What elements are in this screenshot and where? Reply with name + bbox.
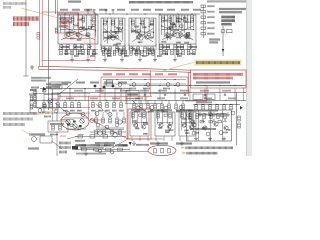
junction xyxy=(191,13,192,14)
diode D2 (arrow) xyxy=(129,142,132,145)
label: R73 value xyxy=(91,110,96,112)
wire: ground drop xyxy=(154,50,156,58)
wire: left cluster vert 3 xyxy=(57,92,59,112)
transistor Q43 xyxy=(179,33,183,37)
label: stage 3 part value xyxy=(138,34,143,36)
resistor R12 xyxy=(71,17,74,22)
transistor Q extra 92 xyxy=(90,118,94,122)
ground xyxy=(73,44,77,48)
wire: mid bus D xyxy=(30,99,246,101)
label: R51 value xyxy=(208,11,215,13)
transistor QM 134 xyxy=(132,83,136,87)
label: stage 1 part value xyxy=(77,39,82,41)
wire: red stub v3 xyxy=(145,96,147,104)
label: understage value xyxy=(92,53,98,55)
junction stage 1 xyxy=(82,18,83,19)
capacitor C busC 205 xyxy=(204,93,206,95)
junction xyxy=(144,85,145,86)
ground xyxy=(88,44,92,48)
junction out stage 6 b xyxy=(169,122,170,123)
mixer sub box xyxy=(52,93,60,99)
resistor R73 xyxy=(92,103,95,108)
label: net name lower xyxy=(228,97,236,99)
wire: ground drop xyxy=(71,50,73,58)
label: bottom row note 0 xyxy=(76,144,86,146)
wire: bottom link rail xyxy=(75,136,126,138)
label: mid band upper note xyxy=(90,82,99,84)
transistor QT 186 xyxy=(184,34,188,38)
wire: stage drop xyxy=(171,137,173,142)
wire: inter-bus drop xyxy=(69,89,71,101)
label: yellow highlighted note xyxy=(196,61,240,64)
ground xyxy=(131,46,135,50)
IC U1 box xyxy=(126,91,139,99)
resistor RT77.5 xyxy=(76,50,79,55)
transistor Q41 xyxy=(165,33,169,37)
label: top right note xyxy=(207,0,246,2)
resistor RT66.5 xyxy=(65,50,68,55)
junction stage 3 xyxy=(140,23,141,24)
capacitor C40 body xyxy=(180,25,183,27)
wire: rising diagonal link xyxy=(58,79,78,95)
label: component value xyxy=(75,46,82,48)
wire: red vertical riser 1 xyxy=(88,96,90,119)
junction xyxy=(144,13,145,14)
junction xyxy=(75,100,76,101)
ground xyxy=(84,151,88,155)
wire: drop into mixer xyxy=(56,112,58,121)
wire: stage 2 branch 1 xyxy=(106,18,108,43)
label: net name lower xyxy=(135,97,143,99)
amplifier stage 3 outline xyxy=(129,18,156,46)
leader line (tan callout) xyxy=(21,8,62,19)
label: stage 5 value xyxy=(132,120,137,122)
wire: bottom-left drop to edge xyxy=(56,132,58,156)
ground xyxy=(146,46,150,50)
wire: inter-bus drop xyxy=(144,89,146,101)
wire: red vertical annotation pair xyxy=(39,0,41,66)
resistor R115 xyxy=(168,104,171,109)
ground xyxy=(189,44,193,48)
label: lower part value xyxy=(176,111,182,113)
transistor Q rm 210 xyxy=(208,112,212,116)
label: frame inner values xyxy=(190,128,216,130)
wire: inter-bus drop xyxy=(189,89,191,101)
resistor RC3 xyxy=(210,114,213,119)
label: red module tag 1 xyxy=(103,73,112,75)
label: red annotation line 2 xyxy=(13,22,29,26)
label: understage value xyxy=(190,53,196,55)
junction stage 4 xyxy=(181,19,182,20)
ground xyxy=(161,44,165,48)
label: mid band upper note xyxy=(104,82,113,84)
transistor QC216 xyxy=(214,122,218,126)
resistor RC2 xyxy=(203,114,206,119)
resistor RT194 xyxy=(193,50,196,55)
label: mid band upper note xyxy=(62,82,71,84)
junction xyxy=(69,88,70,89)
resistor R51 xyxy=(201,11,206,13)
wire: out stage 6 rail xyxy=(157,122,173,124)
wire: ground drop xyxy=(87,50,89,58)
transistor Q blob 95 xyxy=(94,85,97,88)
wire: ground drop xyxy=(104,50,106,58)
wire: inter-bus drop xyxy=(84,89,86,101)
junction frame xyxy=(213,119,214,120)
label: mixer note xyxy=(50,123,64,125)
label: bottom values row xyxy=(76,153,106,155)
wire: comb rail 2 xyxy=(96,129,124,131)
wire: red stub v2 xyxy=(120,89,122,101)
wire: understage rail L xyxy=(58,49,98,51)
wire: red vertical top segment xyxy=(57,0,59,13)
resistor RC0 xyxy=(189,114,192,119)
label: stage 6 value xyxy=(165,131,170,133)
resistor R1 (red highlighted) xyxy=(37,33,40,40)
wire: frame strap xyxy=(212,121,216,123)
transistor Q13 xyxy=(86,33,90,37)
wire: right lower bus xyxy=(193,103,240,105)
label: gnd net xyxy=(107,55,112,57)
resistor R114 xyxy=(161,104,164,109)
ground xyxy=(153,58,157,62)
annotation: red box around output stage 5 xyxy=(128,109,151,139)
junction left 2 xyxy=(43,100,44,101)
resistor R100 xyxy=(95,118,98,123)
transistor Q extra 120 xyxy=(118,120,122,124)
transistor Q31 xyxy=(136,35,140,39)
label: stage 4 part value xyxy=(166,36,171,38)
resistor R130 xyxy=(43,103,46,108)
junction stage 4 xyxy=(184,17,185,18)
wire: inter-bus drop xyxy=(204,89,206,101)
resistor R90 xyxy=(52,125,55,130)
resistor R122 xyxy=(111,130,114,135)
wire: left cluster rail 2 xyxy=(36,107,58,109)
resistor RS152 xyxy=(151,47,154,52)
resistor RB6b xyxy=(169,113,172,118)
capacitor C bottom-rail body xyxy=(90,135,95,138)
label: R52 value xyxy=(208,16,215,18)
wire: out stage 7 rail xyxy=(181,122,194,124)
wire: drop to lower parts xyxy=(168,100,170,104)
label: component value xyxy=(177,46,184,48)
junction xyxy=(159,85,160,86)
wire: mid bus B left xyxy=(40,88,130,90)
label: R60 value xyxy=(30,94,36,96)
resistor R74 xyxy=(99,103,102,108)
ground xyxy=(132,141,136,145)
output stage 7 outline xyxy=(179,112,196,136)
label: stage 1 part value xyxy=(70,32,75,34)
transistor QT 141 xyxy=(139,36,143,40)
label: R75 value xyxy=(105,110,110,112)
wire: red vertical riser 5 xyxy=(243,88,245,101)
transistor Q22 xyxy=(114,35,118,39)
wire: diagonal a xyxy=(96,104,108,114)
label: above-bus ref xyxy=(167,9,175,11)
label: net name lower xyxy=(66,97,74,99)
capacitor C12 body xyxy=(88,26,91,28)
label: cluster note xyxy=(50,134,58,136)
label: gnd net xyxy=(157,55,162,57)
annotation: red box around first stage xyxy=(58,13,79,33)
ground xyxy=(70,58,74,62)
wire: mid cluster bus xyxy=(96,127,124,129)
label: red annotation line 1 xyxy=(13,16,39,20)
resistor RC1 xyxy=(196,114,199,119)
wire: red link into cluster xyxy=(60,119,74,121)
transistor Q bottom 68 xyxy=(66,120,70,124)
wire: ground drop xyxy=(121,50,123,58)
label: bus net name xyxy=(222,90,231,92)
label: mid right note 2 xyxy=(210,41,219,43)
resistor bottom 96 xyxy=(94,148,99,151)
resistor R52 xyxy=(201,16,206,18)
label: bus net name xyxy=(140,90,149,92)
wire: left cluster vert 1 xyxy=(43,89,45,112)
transistor QC226 xyxy=(224,126,228,130)
label: red box text 1 xyxy=(60,17,73,20)
junction xyxy=(105,100,106,101)
junction stage 1 xyxy=(73,24,74,25)
transistor QT 80 xyxy=(78,34,82,38)
resistor R45 xyxy=(191,17,194,22)
label: stage 1 part value xyxy=(65,20,70,22)
resistor RT136.5 xyxy=(135,50,138,55)
wire: mid bus A xyxy=(130,85,246,87)
wire: red separator lower (sloped) xyxy=(39,69,192,72)
label: stage 3 part value xyxy=(134,26,139,28)
wire: right column link xyxy=(202,5,204,38)
capacitor C10 body xyxy=(79,27,82,29)
label: component value xyxy=(163,46,170,48)
junction stage 2 xyxy=(107,21,108,22)
label: stage 1 part value xyxy=(82,28,87,30)
wire: inter-bus drop xyxy=(174,89,176,101)
label: bus net name xyxy=(158,90,167,92)
ground xyxy=(138,58,142,62)
resistor RT61 xyxy=(60,50,63,55)
resistor R116 xyxy=(175,104,178,109)
label: between-stage note 2 xyxy=(176,109,186,111)
label: left band note row xyxy=(46,83,68,85)
wire: stage 3 branch 5 xyxy=(153,18,155,38)
wire: module rail lower xyxy=(103,83,186,85)
label: bottom row notes combined xyxy=(75,144,90,146)
resistor R14 xyxy=(93,17,96,22)
label: right cluster values xyxy=(198,114,226,116)
junction xyxy=(204,85,205,86)
capacitor C under 150 xyxy=(149,50,152,52)
wire: red segment lower mid xyxy=(125,102,162,104)
resistor RS75 xyxy=(74,45,77,50)
wire: drop to lower parts xyxy=(154,100,156,104)
label: stage 5 value xyxy=(143,133,148,135)
label: schematic title line xyxy=(129,1,193,3)
wire: stage drop xyxy=(163,137,165,142)
label: stage 5 value xyxy=(135,127,140,129)
wire: left edge drop xyxy=(29,100,31,113)
wire: far-left vertical xyxy=(25,0,27,76)
label: understage value xyxy=(148,53,154,55)
wire: stage 4 branch 4 xyxy=(172,15,174,33)
junction stage 2 xyxy=(114,26,115,27)
label: bottom mid note 2 xyxy=(176,142,192,144)
junction stage 3 xyxy=(149,26,150,27)
label: gnd net xyxy=(142,55,147,57)
junction stage 4 xyxy=(178,17,179,18)
wire: stage 4 cross-coupling xyxy=(162,26,193,40)
leader line (tan) mid-left xyxy=(36,110,58,115)
wire: bottom bus xyxy=(75,149,130,151)
resistor R104 xyxy=(123,118,126,123)
resistor R111 xyxy=(140,104,143,109)
junction stage 4 xyxy=(190,22,191,23)
wire: stage 3 mid rail xyxy=(131,31,154,33)
label: red box right components xyxy=(196,81,230,83)
label: above-bus ref xyxy=(193,9,201,11)
label: gray note col 1 xyxy=(59,142,71,145)
wire: drop to lower parts xyxy=(161,100,163,104)
ground xyxy=(156,141,160,145)
resistor RS131 xyxy=(130,47,133,52)
wire: stage drop xyxy=(179,137,181,142)
transistor QB7b xyxy=(189,125,193,129)
wire: stage drop xyxy=(139,137,141,142)
wire: red signal path mid xyxy=(58,95,152,97)
capacitor CB5 body xyxy=(139,114,142,116)
label: stage 3 part value xyxy=(135,32,140,34)
capacitor C frame body xyxy=(209,121,212,123)
resistor R22 xyxy=(112,20,115,25)
label: module frame title xyxy=(188,110,218,112)
capacitor C under 94 xyxy=(93,50,96,52)
wire: stage 2 branch 0 xyxy=(103,18,105,40)
capacitor C31 body xyxy=(137,30,140,32)
resistor RT177.5 xyxy=(176,50,179,55)
transistor Q42 xyxy=(172,33,176,37)
label: net name lower xyxy=(157,97,165,99)
wire: red diagonal to ellipse xyxy=(67,135,84,140)
wire: stage 1 mid rail xyxy=(60,29,96,31)
wire: stage 3 branch 4 xyxy=(148,18,150,32)
capacitor C43 body xyxy=(187,32,190,34)
label: left value b xyxy=(42,112,49,114)
capacitor C20 body xyxy=(118,29,121,31)
label: stage 7 value xyxy=(185,132,190,134)
oscillator box xyxy=(40,136,52,143)
label: R54 value xyxy=(208,27,215,29)
junction stage 3 xyxy=(135,30,136,31)
resistor R72 xyxy=(78,103,81,108)
label: stage 3 part value xyxy=(149,24,154,26)
resistor RB5b xyxy=(143,113,146,118)
label: left value a xyxy=(30,89,36,91)
label: stage 3 part value xyxy=(149,37,154,39)
label: understage value xyxy=(176,53,182,55)
label: above-bus ref xyxy=(117,9,125,11)
wire: stage 4 mid rail xyxy=(161,29,194,31)
wire: red bottom diagonal xyxy=(110,139,128,149)
wire: stage 1 branch 2 xyxy=(68,15,70,35)
ground xyxy=(222,137,226,141)
label: component value xyxy=(62,46,69,48)
leader line (tan) lower-left xyxy=(22,130,32,136)
label: stage 4 part value xyxy=(171,23,176,25)
label: module part value xyxy=(163,88,170,90)
label: module part value xyxy=(226,129,231,131)
wire: bus inside red box xyxy=(194,85,242,87)
label: left cluster note 2 xyxy=(31,80,46,82)
wire: out stage 6 branch xyxy=(167,112,169,124)
wire: out stage 5 rail xyxy=(132,122,147,124)
wire: resistor feed xyxy=(64,100,66,102)
resistor R82 xyxy=(209,105,212,110)
junction out stage 7 xyxy=(184,122,185,123)
resistor RT125.5 xyxy=(124,50,127,55)
wire: diagonal to output xyxy=(52,141,62,149)
wire: stage 4 branch 11 xyxy=(193,15,195,28)
label: component value xyxy=(148,49,155,51)
amplifier stage 4 outline xyxy=(159,15,196,44)
transistor Q lower 152 xyxy=(150,106,154,110)
label: net name lower xyxy=(180,97,188,99)
label: above-bus ref xyxy=(99,9,107,11)
label: stage 3 part value xyxy=(131,30,136,32)
resistor RT72 xyxy=(71,50,74,55)
resistor RB7b xyxy=(190,113,193,118)
label: top-left gray note line 2 xyxy=(3,6,11,9)
label: bottom right note 2 xyxy=(187,152,218,155)
junction xyxy=(189,85,190,86)
ground xyxy=(60,44,64,48)
junction frame xyxy=(224,119,225,120)
wire: red separator left bracket xyxy=(38,66,40,69)
label: stage 7 value xyxy=(182,118,187,120)
wire: stage 2 branch 5 xyxy=(122,18,124,41)
filter module box B xyxy=(206,94,215,100)
resistor R103 xyxy=(116,118,119,123)
diode D1 xyxy=(240,106,243,110)
wire: red vertical riser 2 xyxy=(126,96,128,139)
detector module box xyxy=(50,82,62,89)
label: stage 4 part value xyxy=(185,35,190,37)
junction xyxy=(234,85,235,86)
leader tick (tan) xyxy=(181,147,185,149)
wire: resistor feed xyxy=(106,100,108,102)
ground xyxy=(103,58,107,62)
label: red box text 2 xyxy=(60,21,73,24)
junction stage 1 xyxy=(60,19,61,20)
resistor RS138 xyxy=(137,47,140,52)
junction module xyxy=(130,79,131,80)
junction stage 4 xyxy=(193,29,194,30)
transistor QB6b xyxy=(167,125,171,129)
resistor RS161 xyxy=(160,45,163,50)
capacitor C42 body xyxy=(173,25,176,27)
wire: drop to lower parts xyxy=(175,100,177,104)
wire: stage 4 branch 3 xyxy=(169,15,171,40)
junction stage 3 xyxy=(144,32,145,33)
capacitor C busC 165 xyxy=(164,93,166,95)
wire: stage tail xyxy=(158,44,160,50)
label: R70 value xyxy=(63,110,68,112)
label: lower part value xyxy=(162,111,168,113)
label: bottom-left gray note 1 xyxy=(3,112,37,115)
wire: drop to lower parts xyxy=(147,100,149,104)
label: stage 5 refs xyxy=(131,109,146,111)
